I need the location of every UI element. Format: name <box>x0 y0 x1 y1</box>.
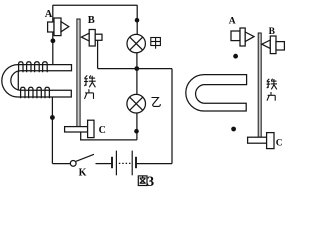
contact A small block <box>48 22 54 32</box>
wire battery to bottom right <box>137 163 172 165</box>
wire right vertical <box>171 69 173 164</box>
svg-text:B: B <box>88 15 95 26</box>
coil turn 3 top arm <box>35 62 40 73</box>
label 甲 (drawn) <box>151 38 161 49</box>
iron piece bar (right) <box>258 33 261 137</box>
node dot below lamp yi <box>134 129 139 134</box>
wire lamp column lower <box>136 113 138 140</box>
label 片 left (drawn) <box>85 89 94 99</box>
wire switch to battery <box>96 163 112 165</box>
coil turn 3 bottom arm <box>37 87 41 98</box>
contact B right: plate <box>270 36 276 54</box>
coil turn 4 top arm <box>43 62 48 73</box>
battery cell plate short 2 <box>135 157 137 168</box>
battery cell plate short 1 <box>111 157 113 168</box>
wire left vertical upper (A branch to coil) <box>52 5 54 71</box>
contact A right: small block <box>231 31 240 41</box>
node dot below coil <box>50 115 55 120</box>
svg-text:A: A <box>45 9 53 20</box>
wire mid horizontal (B to right side) <box>98 68 172 70</box>
armature base bar <box>65 127 88 132</box>
battery cell plate long 2 <box>131 151 133 176</box>
node dot below A <box>51 38 56 43</box>
label 图 (drawn) <box>138 176 147 186</box>
contact B right: small block <box>276 42 284 50</box>
svg-text:A: A <box>229 17 236 27</box>
coil turn 2 top arm <box>27 62 31 73</box>
wire B drop <box>97 40 99 68</box>
contact C block <box>88 120 94 137</box>
wire connector lamp-to-armature <box>81 132 137 140</box>
contact B tip triangle <box>81 33 89 41</box>
terminal dot lower right figure <box>231 127 236 132</box>
switch K circle <box>70 161 76 167</box>
lamp 乙 (yi) <box>127 94 146 113</box>
svg-text:C: C <box>99 125 106 136</box>
coil turn 2 bottom arm <box>29 87 33 98</box>
node junction dot (cross) <box>134 66 139 71</box>
coil turn 4 bottom arm <box>45 87 49 98</box>
contact A plate <box>54 18 61 36</box>
svg-text:3: 3 <box>147 174 154 187</box>
coil turn 1 bottom arm <box>21 87 25 98</box>
horseshoe core (right) <box>186 75 247 111</box>
battery dashed middle <box>119 162 131 164</box>
iron piece bar (armature, left) <box>77 19 80 127</box>
contact C right block <box>267 133 274 149</box>
switch K lever <box>76 154 94 161</box>
contact A tip triangle <box>61 22 69 32</box>
lamp 甲 (jia) <box>127 34 145 52</box>
contact A right: plate <box>240 28 245 46</box>
contact B plate <box>89 30 95 47</box>
armature base bar right <box>248 137 267 143</box>
contact B right: tip triangle <box>262 40 271 49</box>
label 铁 right (drawn) <box>267 79 278 90</box>
coil crossover wire at bend <box>17 71 19 90</box>
label 乙 (drawn) <box>152 98 161 107</box>
contact B small block <box>95 34 102 40</box>
svg-text:C: C <box>276 139 283 149</box>
terminal dot upper right figure <box>233 54 238 59</box>
battery cell plate long 1 <box>115 151 117 176</box>
wire top horizontal <box>53 4 138 6</box>
wire left vertical lower (coil to bottom) <box>51 90 53 164</box>
electromagnet core (left horseshoe) <box>2 65 72 97</box>
label 铁 left (drawn) <box>84 75 96 87</box>
svg-text:B: B <box>269 27 276 37</box>
contact A right: tip triangle <box>245 32 254 42</box>
wire lamp column upper <box>136 5 138 34</box>
wire lamp column middle <box>136 53 138 95</box>
label 片 right (drawn) <box>267 92 275 101</box>
coil turn 1 top arm <box>19 62 23 73</box>
node dot above lamp jia <box>135 18 140 23</box>
svg-text:K: K <box>79 167 87 178</box>
wire bottom left segment <box>52 163 70 165</box>
